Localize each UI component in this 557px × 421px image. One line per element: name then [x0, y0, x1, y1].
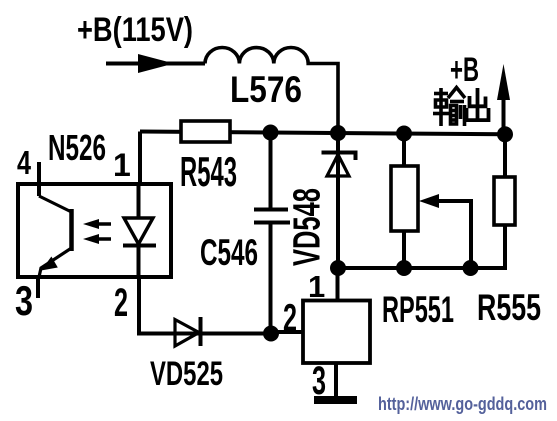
diode VD525 — [175, 317, 201, 346]
wiper arrow of RP551 — [419, 194, 471, 268]
svg-text:RP551: RP551 — [382, 289, 454, 330]
potentiometer RP551 — [391, 134, 418, 269]
wire pin2 down and right — [139, 277, 271, 334]
node junction dot RP551 bottom — [396, 260, 412, 276]
svg-text:1: 1 — [113, 147, 131, 183]
svg-text:VD548: VD548 — [287, 188, 329, 266]
wire pin1 riser — [138, 132, 142, 185]
svg-text:L576: L576 — [230, 69, 302, 110]
wire pin2 to regulator — [271, 330, 303, 334]
inductor L576 — [205, 48, 338, 133]
node junction dot VD548 bottom — [330, 260, 346, 276]
label 出 (chinese: output char 2) — [467, 88, 489, 122]
pin 3 stub — [36, 277, 40, 298]
wire top rail — [140, 132, 505, 135]
svg-text:2: 2 — [114, 281, 128, 325]
resistor R555 — [494, 134, 515, 225]
optocoupler N526 box — [18, 184, 171, 277]
transistor phototransistor of N526 — [39, 196, 72, 277]
resistor R543 — [181, 121, 230, 142]
svg-text:+B(115V): +B(115V) — [77, 11, 193, 49]
node junction dot R555 top — [497, 126, 513, 142]
diode VD548 (zener) — [322, 133, 356, 268]
svg-text:2: 2 — [283, 297, 297, 340]
node junction dot VD548 top — [330, 125, 346, 141]
svg-text:+B: +B — [450, 51, 479, 89]
pin 3 lead regulator — [334, 362, 338, 397]
input arrowhead — [138, 54, 174, 73]
wire bottom rail — [338, 225, 505, 268]
light arrow upper — [83, 219, 111, 229]
svg-text:R543: R543 — [180, 148, 237, 195]
LED of N526 — [123, 184, 156, 277]
svg-text:4: 4 — [17, 144, 31, 181]
regulator box U1 — [303, 301, 370, 364]
node junction dot wiper bottom — [463, 260, 479, 276]
pin 1 lead regulator — [336, 268, 340, 301]
node junction dot C546 top — [263, 125, 279, 141]
svg-text:N526: N526 — [48, 127, 106, 168]
node junction dot RP551 top — [396, 126, 412, 142]
label 输 (chinese: output char 1) — [433, 88, 465, 127]
svg-text:C546: C546 — [200, 232, 258, 273]
output arrow +B — [497, 64, 510, 134]
ground bar — [314, 396, 357, 404]
svg-text:http://www.go-gddq.com: http://www.go-gddq.com — [378, 394, 547, 414]
pin 4 stub — [37, 162, 41, 196]
wire input feed line — [106, 62, 205, 66]
node junction dot pin2 — [263, 326, 279, 342]
svg-text:1: 1 — [308, 269, 325, 304]
svg-text:3: 3 — [15, 277, 33, 324]
svg-text:R555: R555 — [477, 287, 541, 328]
light arrow lower — [83, 234, 111, 244]
capacitor C546 — [254, 133, 290, 334]
svg-text:VD525: VD525 — [150, 355, 223, 393]
